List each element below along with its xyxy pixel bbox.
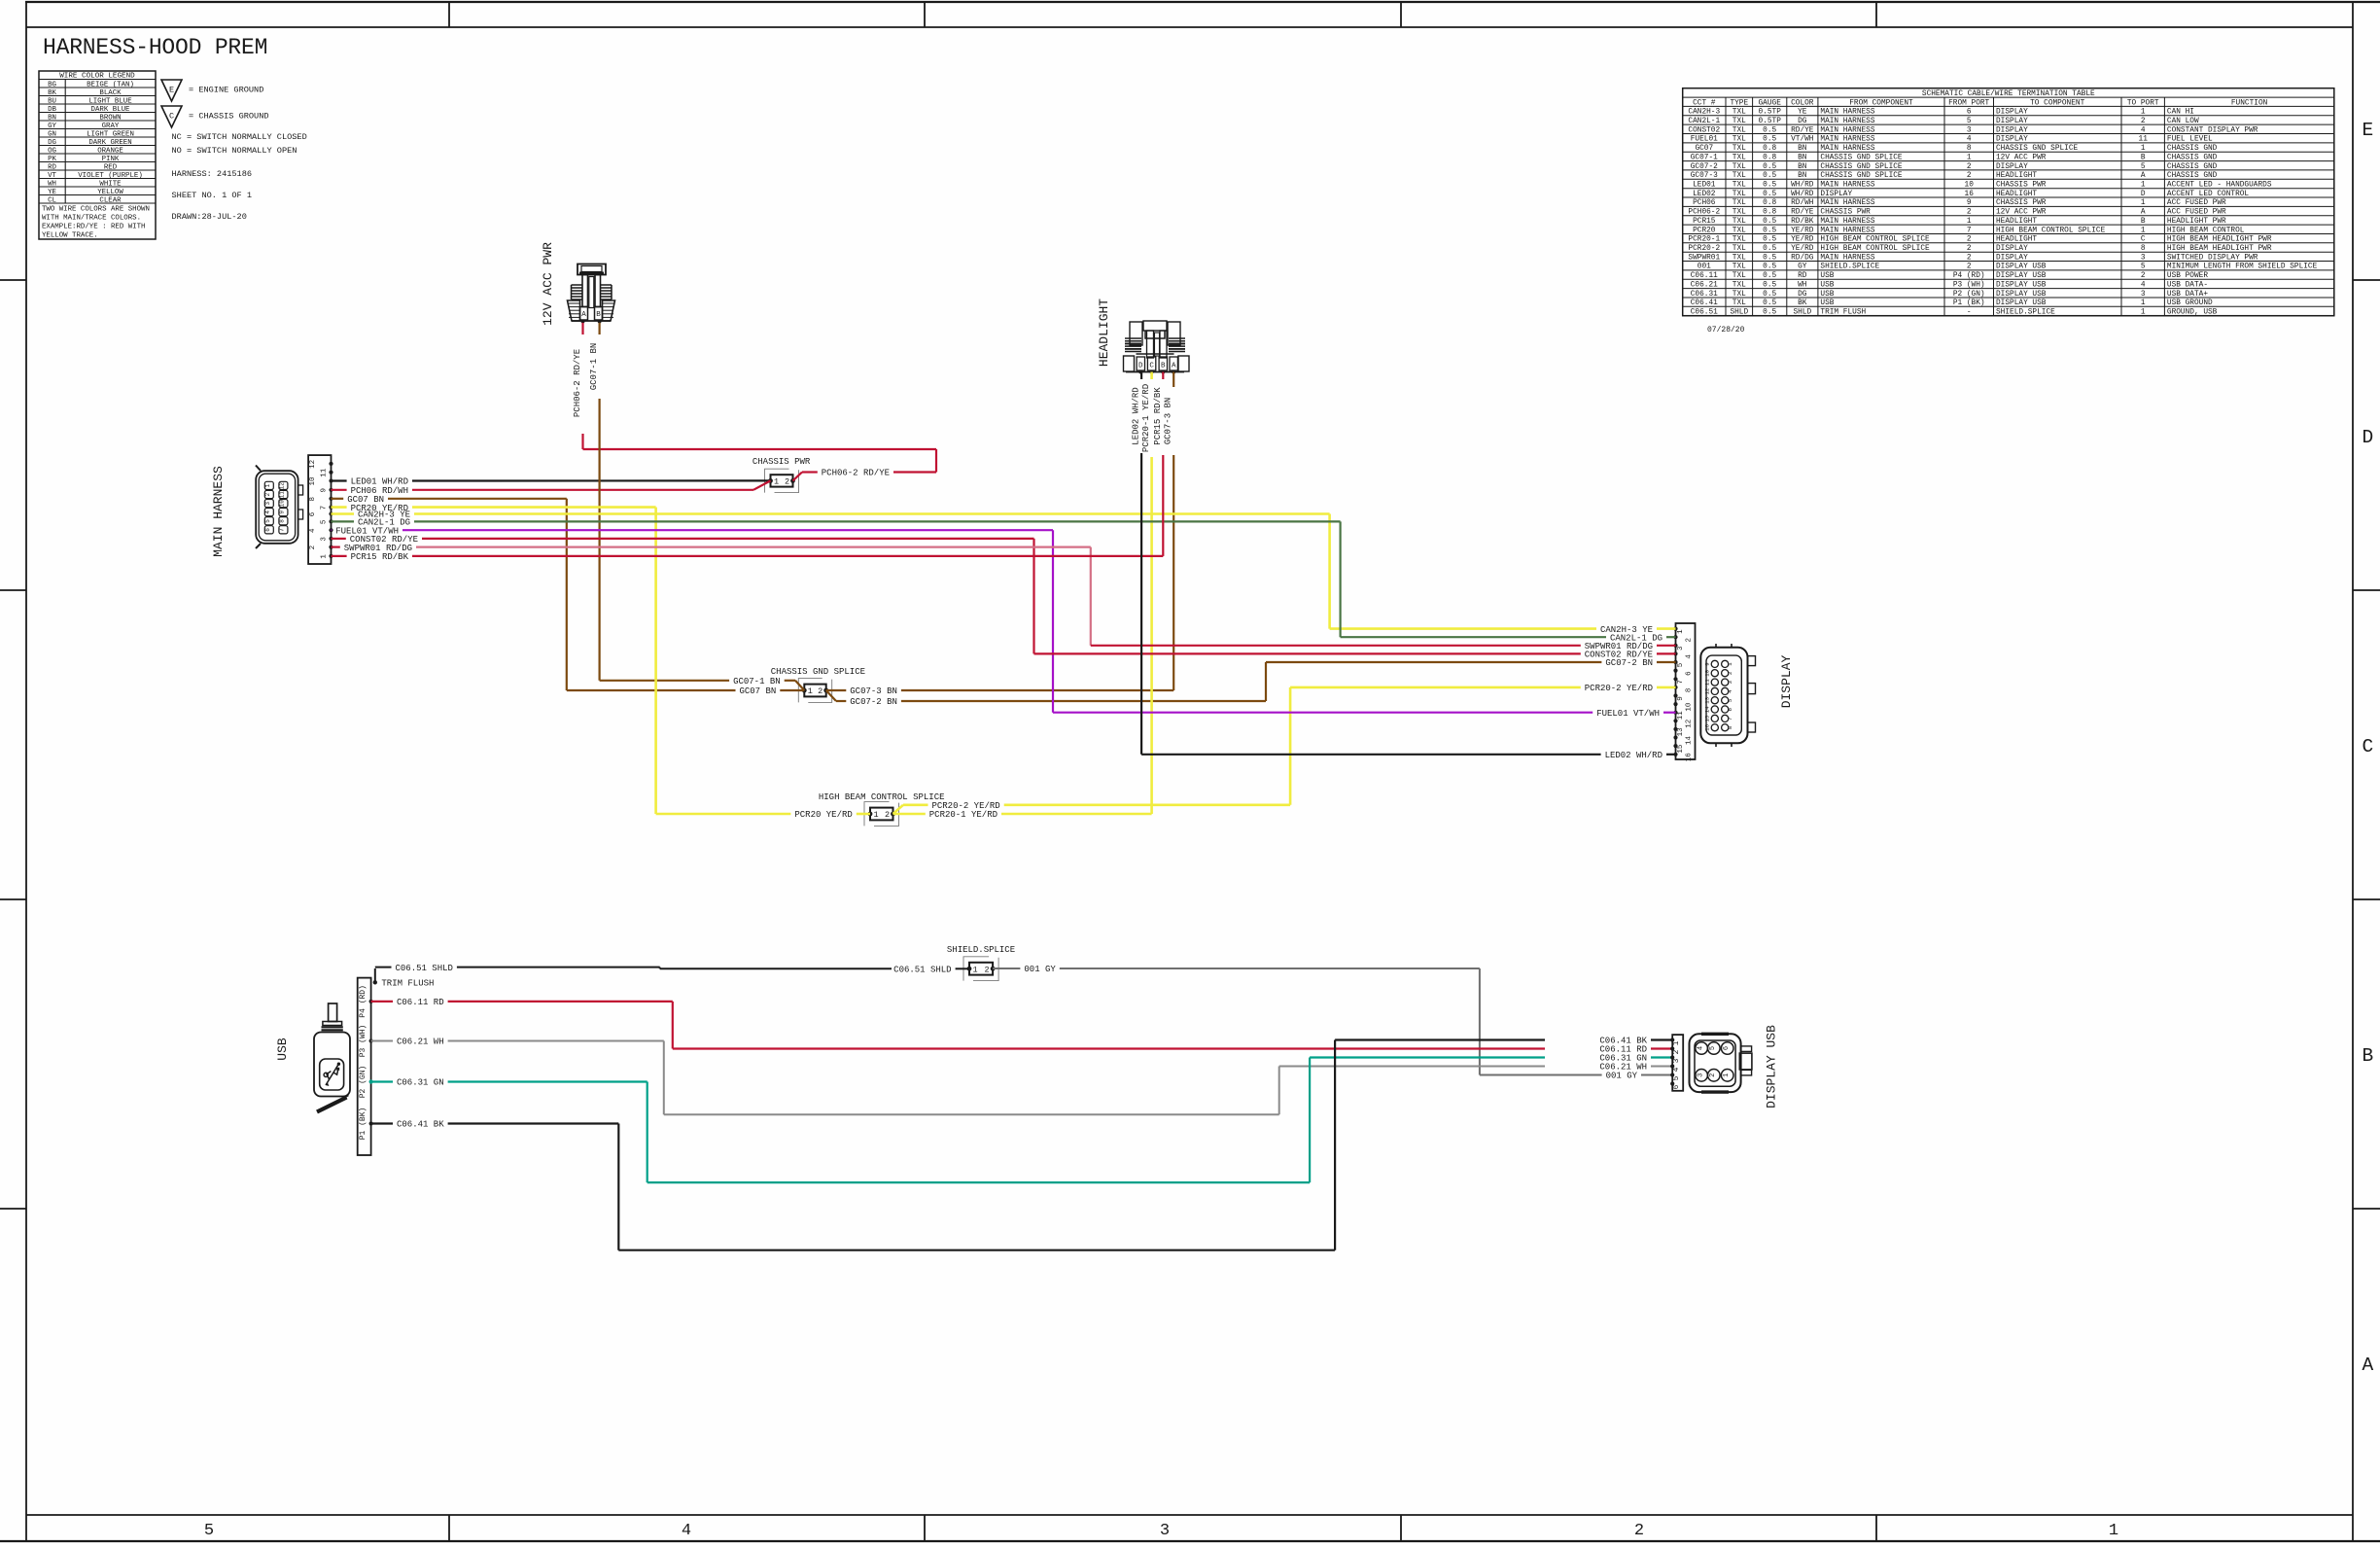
svg-text:4: 4 xyxy=(309,528,317,533)
svg-text:PCR20 YE/RD: PCR20 YE/RD xyxy=(794,810,852,820)
svg-text:2: 2 xyxy=(885,810,890,820)
wire SWPWR01 RD/DG : main harness 2 to display 3 xyxy=(332,544,1676,651)
pin 1 xyxy=(329,554,332,558)
pin 6 xyxy=(1673,669,1677,673)
svg-text:5: 5 xyxy=(204,1522,214,1540)
svg-text:11: 11 xyxy=(320,468,328,477)
svg-text:B: B xyxy=(1161,363,1166,370)
pin B xyxy=(1161,370,1165,374)
svg-text:9: 9 xyxy=(1703,662,1710,666)
svg-text:001 GY: 001 GY xyxy=(1024,965,1056,974)
svg-text:4: 4 xyxy=(682,1522,691,1540)
svg-text:2: 2 xyxy=(309,545,317,550)
svg-text:FUEL01 VT/WH: FUEL01 VT/WH xyxy=(1596,709,1660,719)
svg-text:1: 1 xyxy=(320,554,328,559)
svg-text:GC07-3 BN: GC07-3 BN xyxy=(850,686,897,696)
svg-text:12: 12 xyxy=(1686,720,1694,728)
svg-text:8: 8 xyxy=(1686,688,1694,693)
pin 16 xyxy=(1673,753,1677,756)
display pin strip xyxy=(1673,623,1695,761)
svg-text:14: 14 xyxy=(1686,736,1694,746)
svg-text:16: 16 xyxy=(1686,753,1694,762)
svg-text:5: 5 xyxy=(264,519,271,523)
svg-text:E: E xyxy=(169,86,174,95)
wire GC07 BN : main harness 8 to chassis gnd splice 1 xyxy=(332,495,805,696)
svg-text:= CHASSIS GROUND: = CHASSIS GROUND xyxy=(189,112,269,122)
splice SHIELD.SPLICE xyxy=(963,957,989,981)
svg-text:A: A xyxy=(581,311,586,319)
svg-text:C06.11 RD: C06.11 RD xyxy=(397,998,444,1007)
svg-text:9: 9 xyxy=(1677,696,1685,701)
svg-text:2: 2 xyxy=(985,965,990,974)
splice HIGH BEAM CONTROL SPLICE xyxy=(864,802,890,827)
svg-text:15: 15 xyxy=(1703,715,1710,721)
svg-text:7: 7 xyxy=(320,506,328,510)
connector DISPLAY face view xyxy=(1700,644,1794,747)
svg-text:C06.21 WH: C06.21 WH xyxy=(1599,1063,1647,1073)
svg-text:4: 4 xyxy=(1686,654,1694,659)
svg-text:C06.31 GN: C06.31 GN xyxy=(397,1078,444,1088)
pin 12 xyxy=(1673,719,1677,722)
svg-text:001 GY: 001 GY xyxy=(1606,1072,1638,1081)
svg-text:SWPWR01 RD/DG: SWPWR01 RD/DG xyxy=(1585,642,1653,651)
svg-text:5: 5 xyxy=(1677,662,1685,667)
svg-text:D: D xyxy=(1138,363,1143,370)
svg-text:8: 8 xyxy=(309,497,317,502)
svg-text:10: 10 xyxy=(279,500,286,508)
pin 5 xyxy=(329,519,332,523)
svg-text:PCH06-2 RD/YE: PCH06-2 RD/YE xyxy=(573,349,582,417)
wire CONST02 RD/YE : main harness 3 to display 4 xyxy=(332,535,1676,660)
svg-text:1: 1 xyxy=(264,483,271,487)
svg-text:16: 16 xyxy=(1703,723,1710,730)
svg-text:11: 11 xyxy=(279,491,286,499)
svg-text:= ENGINE GROUND: = ENGINE GROUND xyxy=(189,86,263,95)
svg-text:7: 7 xyxy=(279,528,286,532)
pin 3 xyxy=(329,537,332,541)
svg-text:07/28/20: 07/28/20 xyxy=(1707,326,1745,334)
pin 2 xyxy=(1673,635,1677,639)
wire PCR15 RD/BK : main harness 1 to headlight B xyxy=(332,372,1164,563)
svg-text:13: 13 xyxy=(1703,696,1710,703)
svg-text:6: 6 xyxy=(264,528,271,532)
wire C06.41 BK : usb P1 to display usb 1 xyxy=(371,1037,1673,1250)
pin 9 xyxy=(329,488,332,492)
svg-text:PCR20-1 YE/RD: PCR20-1 YE/RD xyxy=(1141,384,1151,452)
svg-text:GC07 BN: GC07 BN xyxy=(739,686,776,696)
svg-text:5: 5 xyxy=(1727,698,1733,702)
wire C06.21 WH : usb P3 to display usb 4 xyxy=(371,1038,1673,1115)
svg-text:1: 1 xyxy=(1677,629,1685,634)
svg-text:C06.51 SHLD: C06.51 SHLD xyxy=(893,966,951,975)
wire FUEL01 VT/WH : main harness 4 to display 11 xyxy=(332,526,1676,719)
schematic cable/wire termination table xyxy=(1683,88,2334,317)
svg-text:E: E xyxy=(2362,120,2374,141)
wire C06.51 SHLD : trim flush to shield splice 1 xyxy=(375,964,969,983)
svg-text:4: 4 xyxy=(1697,1046,1704,1050)
pin 8 xyxy=(329,497,332,501)
svg-text:11: 11 xyxy=(1703,679,1710,686)
svg-text:PCR15 RD/BK: PCR15 RD/BK xyxy=(351,552,409,562)
svg-text:YELLOW TRACE.: YELLOW TRACE. xyxy=(42,231,98,239)
chassis ground symbol xyxy=(161,106,269,127)
pin 3 xyxy=(1673,644,1677,648)
svg-text:2: 2 xyxy=(1727,671,1733,675)
wire C06.31 GN : usb P2 to display usb 3 xyxy=(371,1054,1673,1182)
svg-text:1: 1 xyxy=(808,686,813,696)
svg-text:D: D xyxy=(2362,427,2374,448)
svg-text:3: 3 xyxy=(1160,1522,1170,1540)
svg-text:3: 3 xyxy=(320,537,328,542)
connector J-MAIN-HARNESS face view xyxy=(211,466,303,557)
svg-text:HARNESS: 2415186: HARNESS: 2415186 xyxy=(172,169,253,179)
svg-text:LED02 WH/RD: LED02 WH/RD xyxy=(1605,751,1662,760)
splice CHASSIS GND SPLICE xyxy=(798,679,822,703)
svg-text:USB: USB xyxy=(275,1038,290,1061)
svg-text:DRAWN:28-JUL-20: DRAWN:28-JUL-20 xyxy=(172,212,247,222)
connector 12V ACC PWR xyxy=(541,242,615,326)
wire LED01 WH/RD : main harness 10 to chassis pwr 1 xyxy=(332,477,771,487)
svg-text:C06.31 GN: C06.31 GN xyxy=(1599,1054,1647,1064)
svg-text:C: C xyxy=(1149,363,1154,370)
pin 5 xyxy=(1673,660,1677,664)
pin 2 xyxy=(1670,1046,1674,1050)
svg-text:1: 1 xyxy=(873,810,878,820)
svg-text:CHASSIS GND SPLICE: CHASSIS GND SPLICE xyxy=(771,667,865,677)
connector HEADLIGHT xyxy=(1097,299,1189,374)
svg-text:4: 4 xyxy=(264,510,271,514)
wire CAN2L-1 DG : main harness 5 to display 2 xyxy=(332,518,1676,644)
svg-text:1: 1 xyxy=(972,965,977,974)
svg-text:A: A xyxy=(2362,1354,2374,1376)
pin 3 xyxy=(1670,1055,1674,1059)
pin 11 xyxy=(329,471,332,475)
svg-text:P1 (BK): P1 (BK) xyxy=(359,1108,367,1141)
svg-text:CONST02 RD/YE: CONST02 RD/YE xyxy=(1585,651,1653,660)
svg-text:C06.41 BK: C06.41 BK xyxy=(1599,1037,1647,1046)
svg-text:3: 3 xyxy=(1697,1073,1704,1077)
svg-text:SHEET NO. 1 OF 1: SHEET NO. 1 OF 1 xyxy=(172,191,253,200)
svg-text:14: 14 xyxy=(1703,706,1710,713)
pin 2 xyxy=(329,545,332,549)
svg-text:GC07-3 BN: GC07-3 BN xyxy=(1164,398,1173,445)
main harness pin strip xyxy=(308,455,333,564)
svg-text:2: 2 xyxy=(1709,1073,1717,1077)
svg-text:C06.51 SHLD: C06.51 SHLD xyxy=(396,964,453,973)
wire color legend table xyxy=(39,71,156,239)
svg-text:12: 12 xyxy=(279,482,286,490)
pin 9 xyxy=(1673,693,1677,697)
svg-text:10: 10 xyxy=(1686,702,1694,712)
pin 6 xyxy=(1670,1081,1674,1085)
pin 7 xyxy=(1673,677,1677,681)
svg-text:HIGH BEAM CONTROL SPLICE: HIGH BEAM CONTROL SPLICE xyxy=(819,792,945,802)
svg-text:GC07-1 BN: GC07-1 BN xyxy=(733,677,781,686)
svg-text:HEADLIGHT: HEADLIGHT xyxy=(1097,299,1111,367)
svg-text:TRIM FLUSH: TRIM FLUSH xyxy=(381,979,434,989)
svg-text:11: 11 xyxy=(1677,711,1685,721)
svg-text:LED02 WH/RD: LED02 WH/RD xyxy=(1132,387,1141,444)
svg-text:6: 6 xyxy=(309,511,317,516)
pin P4 xyxy=(369,1000,373,1003)
svg-text:1: 1 xyxy=(774,477,779,487)
wire GC07-3 BN : chassis gnd splice 2 to headlight A xyxy=(826,372,1173,697)
svg-text:EXAMPLE:RD/YE : RED WITH: EXAMPLE:RD/YE : RED WITH xyxy=(42,223,145,230)
wire CAN2H-3 YE : main harness 6 to display 1 xyxy=(332,510,1676,635)
pin 15 xyxy=(1673,744,1677,748)
wire PCH06-2 RD/YE : chassis pwr 2 to 12V ACC PWR A xyxy=(573,323,936,481)
pin 4 xyxy=(1670,1064,1674,1068)
svg-text:B: B xyxy=(596,311,601,319)
wire GC07-1 BN : chassis gnd splice 1 to 12V ACC PWR B xyxy=(589,323,804,690)
svg-text:GC07-2 BN: GC07-2 BN xyxy=(1605,658,1653,668)
svg-text:7: 7 xyxy=(1727,717,1733,721)
svg-text:2: 2 xyxy=(1634,1522,1644,1540)
svg-text:C: C xyxy=(169,112,174,122)
display usb pin strip xyxy=(1670,1035,1683,1091)
svg-text:C06.21 WH: C06.21 WH xyxy=(397,1038,444,1047)
pin 14 xyxy=(1673,735,1677,739)
svg-text:MAIN HARNESS: MAIN HARNESS xyxy=(211,466,226,557)
wire PCH06 RD/WH : main harness 9 to chassis pwr 1 xyxy=(332,480,771,496)
svg-text:PCR20-2 YE/RD: PCR20-2 YE/RD xyxy=(931,801,999,811)
svg-text:5: 5 xyxy=(1709,1046,1717,1050)
svg-text:TWO WIRE COLORS ARE SHOWN: TWO WIRE COLORS ARE SHOWN xyxy=(42,206,150,214)
svg-text:HARNESS-HOOD PREM: HARNESS-HOOD PREM xyxy=(43,35,267,60)
svg-text:PCR20-1 YE/RD: PCR20-1 YE/RD xyxy=(929,810,997,820)
pin 5 xyxy=(1670,1073,1674,1076)
svg-text:4: 4 xyxy=(1727,689,1733,693)
svg-text:3: 3 xyxy=(1727,681,1733,685)
svg-text:P4 (RD): P4 (RD) xyxy=(359,985,367,1018)
svg-text:C: C xyxy=(2362,736,2374,757)
svg-text:2: 2 xyxy=(264,493,271,497)
svg-text:NO = SWITCH NORMALLY OPEN: NO = SWITCH NORMALLY OPEN xyxy=(172,146,297,156)
svg-text:2: 2 xyxy=(818,686,822,696)
pin 11 xyxy=(1673,711,1677,715)
pin 10 xyxy=(329,478,332,482)
node TRIM FLUSH xyxy=(373,979,435,989)
svg-text:15: 15 xyxy=(1677,744,1685,754)
svg-text:8: 8 xyxy=(1727,725,1733,729)
svg-text:6: 6 xyxy=(1727,708,1733,712)
svg-text:9: 9 xyxy=(279,510,286,514)
svg-text:WITH MAIN/TRACE COLORS.: WITH MAIN/TRACE COLORS. xyxy=(42,215,141,223)
wire LED02 WH/RD : display 16 to headlight D xyxy=(1132,372,1676,761)
pin A xyxy=(1172,370,1175,374)
wire PCR20 YE/RD : main harness 7 to high beam control splice 1 xyxy=(332,504,871,820)
pin C xyxy=(1150,370,1154,374)
wire PCR20-2 YE/RD : high beam splice 2 to display 8 xyxy=(893,684,1676,814)
svg-text:10: 10 xyxy=(309,476,317,486)
svg-text:12V ACC PWR: 12V ACC PWR xyxy=(541,242,555,326)
svg-text:3: 3 xyxy=(264,502,271,506)
svg-text:PCR20-2 YE/RD: PCR20-2 YE/RD xyxy=(1585,684,1653,693)
pin 13 xyxy=(1673,727,1677,731)
svg-text:DISPLAY: DISPLAY xyxy=(1779,654,1794,708)
svg-text:B: B xyxy=(2362,1045,2374,1067)
svg-text:13: 13 xyxy=(1677,727,1685,737)
wire GC07-2 BN : chassis gnd splice 2 to display 5 xyxy=(826,658,1676,707)
pin 1 xyxy=(1670,1038,1674,1041)
svg-text:10: 10 xyxy=(1703,669,1710,676)
pin D xyxy=(1138,370,1142,374)
pin 10 xyxy=(1673,702,1677,706)
pin 8 xyxy=(1673,686,1677,689)
svg-text:P3 (WH): P3 (WH) xyxy=(359,1025,367,1058)
pin 4 xyxy=(329,528,332,532)
svg-text:2: 2 xyxy=(1686,638,1694,643)
usb pin strip xyxy=(358,978,373,1155)
svg-text:1: 1 xyxy=(1727,662,1733,666)
pin 6 xyxy=(329,511,332,515)
pin 12 xyxy=(329,462,332,466)
svg-text:GC07-2 BN: GC07-2 BN xyxy=(850,697,897,707)
pin P2 xyxy=(369,1079,373,1083)
svg-text:NC = SWITCH NORMALLY CLOSED: NC = SWITCH NORMALLY CLOSED xyxy=(172,132,307,142)
svg-text:1: 1 xyxy=(1723,1073,1731,1077)
engine ground symbol xyxy=(161,80,263,101)
svg-text:1: 1 xyxy=(2109,1522,2118,1540)
svg-text:12: 12 xyxy=(1703,687,1710,694)
svg-text:7: 7 xyxy=(1677,680,1685,685)
svg-text:9: 9 xyxy=(320,488,328,493)
svg-text:SHIELD.SPLICE: SHIELD.SPLICE xyxy=(947,945,1015,955)
svg-text:5: 5 xyxy=(320,519,328,524)
wire PCR20-1 YE/RD : high beam splice 2 to headlight C xyxy=(893,372,1152,821)
pin 1 xyxy=(1673,627,1677,631)
svg-text:PCR15 RD/BK: PCR15 RD/BK xyxy=(1153,387,1163,445)
pin P1 xyxy=(369,1121,373,1125)
svg-text:A: A xyxy=(1172,363,1176,370)
pin P3 xyxy=(369,1038,373,1042)
component USB connector xyxy=(275,1003,350,1112)
svg-text:3: 3 xyxy=(1677,646,1685,651)
svg-text:PCH06-2 RD/YE: PCH06-2 RD/YE xyxy=(822,469,890,478)
svg-text:C06.41 BK: C06.41 BK xyxy=(397,1120,444,1130)
pin 4 xyxy=(1673,651,1677,655)
svg-text:6: 6 xyxy=(1686,671,1694,676)
svg-text:P2 (GN): P2 (GN) xyxy=(359,1066,367,1099)
wire C06.11 RD : usb P4 to display usb 2 xyxy=(371,998,1673,1055)
splice CHASSIS PWR xyxy=(765,469,789,492)
svg-text:6: 6 xyxy=(1723,1046,1731,1050)
pin 7 xyxy=(329,506,332,510)
svg-text:12: 12 xyxy=(309,460,317,469)
wire 001 GY : shield splice 2 to display usb 5 xyxy=(993,965,1672,1080)
svg-text:DISPLAY USB: DISPLAY USB xyxy=(1765,1025,1779,1108)
svg-text:GC07-1 BN: GC07-1 BN xyxy=(589,343,599,391)
svg-text:8: 8 xyxy=(279,519,286,523)
connector DISPLAY USB face view xyxy=(1690,1025,1779,1108)
svg-text:2: 2 xyxy=(785,477,789,487)
svg-text:CHASSIS PWR: CHASSIS PWR xyxy=(752,457,811,467)
